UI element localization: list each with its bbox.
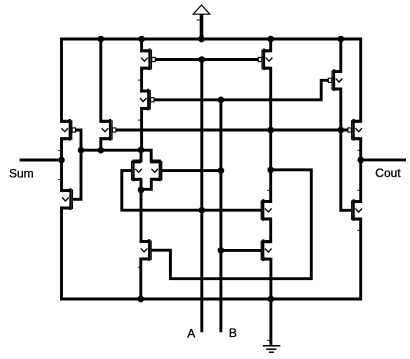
- svg-text:A: A: [187, 327, 195, 341]
- svg-text:Cout: Cout: [375, 166, 401, 180]
- svg-text:B: B: [229, 326, 237, 340]
- svg-text:Sum: Sum: [9, 167, 34, 181]
